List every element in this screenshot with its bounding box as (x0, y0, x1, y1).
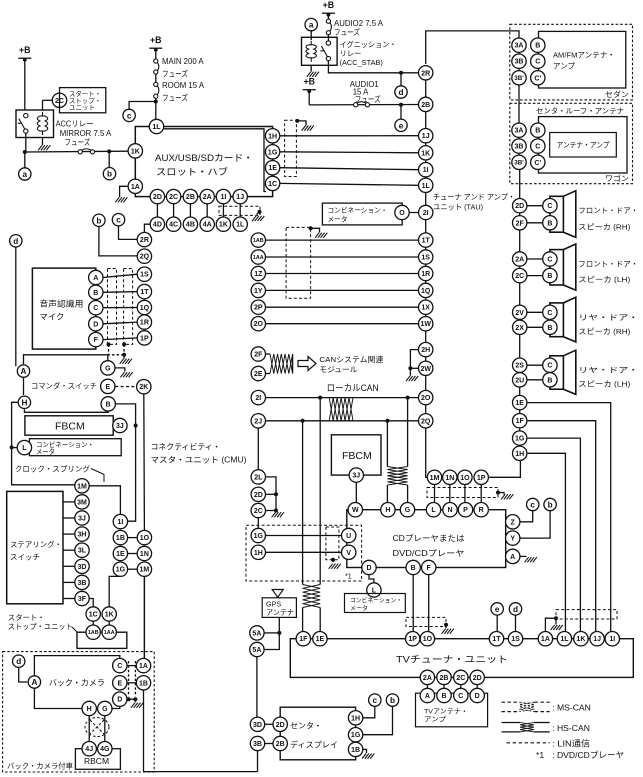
connector RBCM 4G (98, 742, 112, 756)
connector commander H (18, 396, 30, 408)
speaker rear door speaker RH (550, 297, 576, 342)
svg-text:1B: 1B (139, 680, 148, 687)
svg-text:H: H (21, 398, 27, 407)
connector CD G (400, 503, 414, 517)
wire e to TV 1T (496, 615, 498, 632)
connector display 1B (348, 742, 362, 756)
svg-text:ACCリレー: ACCリレー (56, 120, 94, 129)
wire d down to commander A (15, 247, 17, 366)
svg-text:2C: 2C (456, 675, 465, 682)
wire +B to MAIN fuse (155, 49, 157, 59)
svg-text:N: N (447, 507, 452, 514)
svg-text:ローカルCAN: ローカルCAN (327, 383, 379, 393)
connector speaker C (front door speaker RH) (543, 199, 557, 213)
svg-text:1I: 1I (220, 194, 226, 201)
ground (hub 1A) (115, 197, 127, 202)
speaker front door speaker RH (550, 191, 576, 238)
svg-text:1R: 1R (421, 271, 430, 278)
svg-text:セダン: セダン (605, 89, 629, 99)
connector CMU 1G (right) (251, 528, 265, 542)
wire TAU pin column vertical (425, 73, 427, 421)
connector CD D (362, 560, 376, 574)
svg-text:1M: 1M (430, 475, 440, 482)
svg-text:2F: 2F (254, 352, 263, 359)
wires hub right pins to TAU top pins (280, 135, 419, 137)
connector CD A (506, 549, 520, 563)
connector TAU 2R (419, 66, 433, 80)
svg-text:2D: 2D (153, 194, 162, 201)
box combination meter (top) (322, 203, 402, 225)
stub wires steering box to clock-spring pins (63, 501, 75, 503)
svg-text:CANシステム関連: CANシステム関連 (319, 354, 383, 364)
connector camera D (113, 692, 127, 706)
svg-text:AUDIO2 7.5 A: AUDIO2 7.5 A (334, 19, 384, 28)
svg-text:1T: 1T (422, 238, 431, 245)
svg-text:モジュール: モジュール (319, 365, 357, 374)
junction B/F shield (444, 623, 448, 627)
svg-text:1G: 1G (116, 567, 126, 574)
ground (CMU 2L/2D/2C) (272, 512, 284, 517)
svg-text:e: e (399, 121, 404, 130)
svg-text:C: C (535, 59, 540, 66)
svg-text:2C: 2C (169, 194, 178, 201)
svg-text:R: R (479, 507, 484, 514)
wire 2H/2W ground stub (410, 350, 418, 376)
risers local CAN down to CD player H/G (386, 421, 388, 467)
svg-text:*1: *1 (536, 750, 544, 760)
svg-text:c: c (127, 111, 132, 120)
svg-text:C: C (547, 310, 552, 317)
connector speaker B (rear door speaker LH) (543, 373, 557, 387)
wire GPS to 5A pair (264, 617, 279, 649)
wire A to ground (520, 555, 527, 557)
svg-text:C: C (547, 363, 552, 370)
svg-text:2U: 2U (515, 377, 524, 384)
connector TAU 2S (513, 358, 527, 372)
wire 1K to 1AA (108, 621, 110, 625)
connector TAU 1J (419, 129, 433, 143)
connector display 2B (273, 736, 287, 750)
speaker rear door speaker LH (550, 350, 576, 394)
svg-text:1B: 1B (351, 747, 360, 754)
wire display 1B to ground (363, 749, 367, 753)
svg-text:スピーカ (RH): スピーカ (RH) (578, 327, 630, 336)
svg-text:リヤ・ドア・: リヤ・ドア・ (578, 313, 638, 322)
svg-text:1W: 1W (420, 321, 431, 328)
box start-stop unit (60, 88, 106, 113)
wire junction to c (129, 102, 156, 110)
connector CMU 2D (251, 487, 265, 501)
svg-text:F: F (427, 565, 432, 572)
svg-text:TVアンテナ・: TVアンテナ・ (424, 708, 468, 716)
box wagon antenna (dashed) (510, 103, 633, 183)
net b (display) (386, 694, 398, 706)
wire Y to b (520, 511, 550, 538)
wire shield to ground (445, 625, 447, 629)
connector hub 2A (200, 189, 214, 203)
svg-text:3B: 3B (515, 59, 524, 66)
svg-text:音声認識用: 音声認識用 (39, 299, 83, 309)
svg-text:: MS-CAN: : MS-CAN (552, 703, 591, 713)
connector clock spring 3D (75, 559, 89, 573)
svg-text:1O: 1O (423, 636, 433, 643)
connector CD L (426, 503, 440, 517)
shield around CMU-TAU wires (286, 227, 311, 298)
junction CAN to 1F riser (301, 419, 305, 423)
svg-text:1A: 1A (131, 184, 140, 191)
wire shield to ground (311, 228, 320, 232)
svg-text:+B: +B (303, 77, 315, 87)
svg-text:B: B (547, 377, 552, 384)
connector TV 1J (590, 632, 604, 646)
wire Z to c (520, 511, 533, 522)
svg-text:1K: 1K (421, 150, 430, 157)
svg-text:3J: 3J (116, 423, 124, 430)
svg-text:フューズ: フューズ (162, 93, 188, 103)
box center display (280, 707, 355, 760)
ground (LIN shield) (501, 494, 513, 499)
pointer start-stop (72, 627, 77, 632)
svg-text:クロック・スプリング: クロック・スプリング (15, 464, 91, 473)
wire 3D to 2D (265, 723, 273, 725)
connector CMU 4B (183, 217, 197, 231)
connector speaker B (front door speaker RH) (543, 216, 557, 230)
connector meter O (395, 205, 409, 219)
box FBCM (left) (25, 416, 113, 435)
wire G to ground (115, 368, 125, 372)
connector TAU 2V (513, 305, 527, 319)
connector CD W (348, 503, 362, 517)
svg-text:1AB: 1AB (88, 630, 99, 636)
connector clock spring 3M (75, 495, 89, 509)
net c (display) (369, 694, 381, 706)
connector wagon B (531, 123, 545, 137)
svg-text:2D: 2D (473, 675, 482, 682)
wire 2U to B (527, 379, 543, 381)
wire TAU 1H to 1P (488, 461, 520, 478)
svg-text:4A: 4A (203, 222, 212, 229)
connector 1K (start-stop) (102, 607, 116, 621)
svg-text:3J: 3J (352, 473, 360, 480)
connector CMU 2K (137, 380, 151, 394)
wire A to H link (23, 378, 25, 395)
wire b to display 1G (363, 707, 393, 735)
wire ROOM fuse to hub 1L (155, 98, 157, 119)
svg-text:フューズ: フューズ (334, 27, 360, 37)
wire F down to TV 1O (428, 575, 430, 632)
connector CMU 1Q (137, 300, 151, 314)
connector CD V (342, 545, 356, 559)
svg-text:b: b (96, 216, 101, 225)
box voice recognition mic (32, 268, 95, 349)
svg-text:1K: 1K (576, 636, 585, 643)
connector 1C (start-stop) (86, 607, 100, 621)
svg-text:1Q: 1Q (140, 305, 150, 312)
wire 2S to C (527, 364, 543, 366)
svg-text:フューズ: フューズ (162, 69, 188, 79)
wire 2C to 1G (257, 518, 259, 529)
svg-text:スピーカ (LH): スピーカ (LH) (578, 379, 630, 388)
svg-text:2K: 2K (139, 384, 148, 391)
net b (CD) (544, 498, 556, 510)
svg-text:メータ: メータ (350, 605, 368, 613)
connector display 2D (273, 717, 287, 731)
svg-text:A: A (425, 693, 430, 700)
ground (TAU 2H/2W) (406, 376, 418, 381)
connector clock spring 1M (75, 479, 89, 493)
wire CMU 1AB to TAU 1T (266, 239, 419, 241)
wire 3A-3B-3B' chain (sedan) (518, 51, 520, 72)
connector hub 2C (166, 189, 180, 203)
connector mic C (89, 301, 103, 315)
svg-text:ストップ・ユニット: ストップ・ユニット (8, 622, 73, 631)
connector camera 1A (136, 658, 150, 672)
battery +B (fuse chain) (149, 35, 162, 52)
connector display 3B (250, 736, 264, 750)
connector sedan 3B' (512, 71, 526, 85)
box combination meter (left) (29, 439, 121, 456)
svg-text:a: a (309, 21, 314, 30)
svg-text:E: E (105, 384, 110, 391)
svg-text:TVチューナ・ユニット: TVチューナ・ユニット (396, 655, 508, 665)
svg-text:2A: 2A (515, 257, 524, 264)
fuse MIRROR 7.5A symbol (78, 149, 94, 154)
junction a (23, 150, 27, 154)
wire L to junction (12, 447, 18, 449)
twisted pair local CAN (329, 398, 353, 421)
svg-text:アンプ: アンプ (553, 62, 575, 71)
wire shield drain to ground (123, 355, 125, 359)
wire 2Q down to 1M (426, 428, 428, 477)
wire camera 1B down to display 3B (143, 690, 145, 772)
ignition relay switch (320, 41, 330, 61)
ignition relay coil (306, 41, 316, 62)
connector TAU 2F (513, 216, 527, 230)
svg-text:5A: 5A (252, 647, 261, 654)
connector TAU 1T (419, 233, 433, 247)
svg-text:2E: 2E (254, 371, 263, 378)
connector TAU 1L (419, 178, 433, 192)
connector mic D (89, 317, 103, 331)
ground (hub right shield) (302, 126, 314, 131)
svg-text:3B: 3B (78, 580, 87, 587)
connector TAU 2A (513, 252, 527, 266)
svg-text:1I: 1I (609, 636, 615, 643)
svg-text:1T: 1T (492, 636, 501, 643)
svg-text:リヤ・ドア・: リヤ・ドア・ (578, 366, 638, 375)
wire a to relay coil (310, 31, 312, 40)
svg-text:4B: 4B (186, 222, 195, 229)
connector 5A (top) (250, 626, 264, 640)
junction center shield (309, 226, 313, 230)
svg-text:C: C (117, 663, 122, 670)
box sedan antenna (dashed) (510, 24, 633, 100)
connector commander E (101, 379, 115, 393)
svg-text:スピーカ (LH): スピーカ (LH) (578, 275, 630, 284)
svg-text:1S: 1S (140, 272, 149, 279)
connector inline 1O (137, 530, 151, 544)
svg-text:1E: 1E (268, 165, 277, 172)
svg-text:1J: 1J (593, 636, 601, 643)
fuse MAIN 200A symbol (154, 59, 159, 74)
connector inline 1M (137, 562, 151, 576)
connector hub 1C (265, 176, 279, 190)
svg-text:C': C' (534, 160, 541, 167)
svg-text:チューナ アンド アンプ・: チューナ アンド アンプ・ (433, 193, 515, 202)
connector sedan C' (531, 71, 545, 85)
svg-text:2J: 2J (254, 418, 262, 425)
svg-text:P: P (463, 507, 468, 514)
connector CMU 1G (left) (113, 562, 127, 576)
svg-text:2I: 2I (255, 395, 261, 402)
svg-text:1B: 1B (116, 535, 125, 542)
wire G to D (112, 706, 120, 708)
connector wagon 3A (512, 123, 526, 137)
svg-text:c: c (116, 216, 121, 225)
battery +B (AUDIO1) (303, 77, 316, 94)
svg-text:1M: 1M (140, 567, 150, 574)
pointer clock spring (91, 469, 104, 483)
svg-text:2B: 2B (186, 194, 195, 201)
connector start-stop 1AB (86, 625, 100, 639)
junction CAN to G riser (406, 396, 410, 400)
box LIN dashed around 1G/1H-U/V (246, 525, 362, 581)
ground (B/F shield) (442, 629, 454, 634)
svg-text:2D: 2D (276, 722, 285, 729)
shield inner dashed (U/V) (326, 527, 339, 560)
wire 2A to C (527, 258, 543, 260)
svg-text:(ACC_STAB): (ACC_STAB) (340, 58, 383, 67)
wire 2D to rail (266, 493, 277, 495)
svg-text:リレー: リレー (340, 49, 362, 58)
wire mic shield drains (109, 344, 125, 354)
svg-text:1I: 1I (423, 167, 429, 174)
svg-text:1AA: 1AA (253, 255, 264, 261)
connector hub 1I (216, 189, 230, 203)
svg-text:1AA: 1AA (104, 630, 115, 636)
twisted pair to TV tuner (303, 585, 321, 608)
junction d (399, 71, 403, 75)
svg-text:3D: 3D (78, 564, 87, 571)
connector CD U (342, 528, 356, 542)
svg-text:1Y: 1Y (254, 288, 263, 295)
svg-text:1K: 1K (131, 148, 140, 155)
legend HS-CAN lines (502, 722, 521, 724)
connector clock spring 3L (75, 543, 89, 557)
svg-text:4D: 4D (153, 222, 162, 229)
connector CMU 1AB (251, 233, 265, 247)
wire 2V to C (527, 311, 543, 313)
wire 1C to 1AB (92, 621, 94, 625)
connector CMU 4C (166, 217, 180, 231)
connector speaker B (front door speaker LH) (543, 268, 557, 282)
connector hub 1K (128, 144, 142, 158)
connector CD R (474, 503, 488, 517)
svg-text:3B: 3B (515, 144, 524, 151)
connector speaker C (rear door speaker RH) (543, 305, 557, 319)
svg-text:H: H (87, 706, 92, 713)
wire hub 1A to ground (120, 186, 129, 197)
svg-text:1L: 1L (152, 124, 161, 131)
connector TV 1I (605, 632, 619, 646)
box AM/FM antenna amp (539, 31, 626, 88)
svg-text:2W: 2W (420, 366, 431, 373)
svg-text:3L: 3L (78, 548, 87, 555)
connector CMU 1R (137, 315, 151, 329)
svg-text:1R: 1R (140, 320, 149, 327)
svg-text:2X: 2X (515, 325, 524, 332)
svg-text:バック・カメラ: バック・カメラ (49, 678, 105, 687)
box combination meter (center) (345, 594, 406, 613)
svg-text:1P: 1P (408, 636, 417, 643)
svg-text:: DVD/CDプレーヤ: : DVD/CDプレーヤ (552, 750, 624, 760)
svg-text:バック・カメラ付車: バック・カメラ付車 (7, 762, 74, 771)
svg-text:1A: 1A (541, 636, 550, 643)
svg-text:1A: 1A (139, 663, 148, 670)
junction CAN to H riser (385, 419, 389, 423)
net e (top) (395, 119, 407, 131)
net d (camera) (13, 655, 25, 667)
svg-text:コンビネーション・: コンビネーション・ (350, 597, 402, 605)
wire CMU 1AA to TAU 1S (266, 256, 419, 258)
svg-text:2R: 2R (140, 237, 149, 244)
svg-text:1E: 1E (316, 636, 325, 643)
connector TAU 1H (513, 446, 527, 460)
wire CMU 2P to TAU 1X (266, 306, 419, 308)
svg-text:スロット・ハブ: スロット・ハブ (156, 166, 228, 177)
svg-text:1G: 1G (515, 436, 525, 443)
connector display 3D (250, 717, 264, 731)
wire CMU 1G to 1K (109, 576, 120, 606)
connector CMU 1T (137, 284, 151, 298)
wire 2K down to 1O (143, 394, 146, 531)
wire 3B to 2B (265, 743, 273, 745)
svg-text:DVD/CDプレーヤ: DVD/CDプレーヤ (393, 549, 465, 558)
junction 5A (277, 631, 281, 635)
wire coil to ground (42, 138, 44, 146)
svg-text:2Q: 2Q (421, 418, 431, 425)
wire d to TV 1S (515, 615, 517, 632)
connector TAU 1R (419, 266, 433, 280)
svg-text:2B: 2B (421, 102, 430, 109)
svg-text:AM/FMアンテナ・: AM/FMアンテナ・ (553, 51, 615, 60)
wire c to display 1H (363, 707, 375, 718)
svg-text:1N: 1N (140, 551, 149, 558)
wire coil to ground (310, 65, 312, 71)
svg-text:1K: 1K (105, 612, 114, 619)
svg-text:2F: 2F (516, 220, 525, 227)
fuse AUDIO2 7.5A symbol (326, 19, 331, 35)
wire 5A down to display 3D (256, 657, 258, 718)
box steering switch (7, 491, 63, 603)
connector CMU 4A (200, 217, 214, 231)
legend HS-CAN twist (520, 723, 534, 732)
wire 3A-3B-3B' chain (wagon) (518, 136, 520, 157)
svg-text:d: d (13, 237, 18, 246)
wire CAN stub bracket (292, 354, 294, 374)
connector TAU 2O (local CAN) (419, 390, 433, 404)
relay ignition (box) (302, 37, 338, 65)
connector hub 1L (149, 119, 163, 133)
svg-text:1F: 1F (299, 636, 308, 643)
wire H left down to clock spring 1M (12, 402, 75, 485)
svg-text:スタート・: スタート・ (8, 613, 45, 622)
svg-text:AUX/USB/SDカード・: AUX/USB/SDカード・ (155, 153, 253, 163)
svg-text:3J: 3J (78, 516, 86, 523)
ground (commander G) (120, 372, 132, 377)
connector speaker C (rear door speaker LH) (543, 358, 557, 372)
net a (top) (305, 18, 317, 30)
